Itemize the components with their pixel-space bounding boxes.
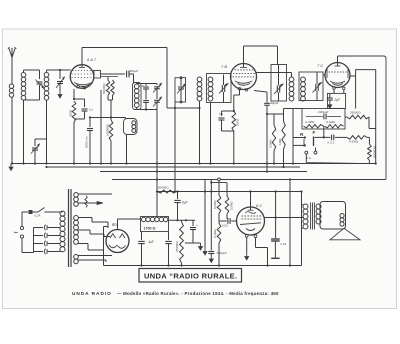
svg-text:UNDA “RADIO RURALE.: UNDA “RADIO RURALE.	[144, 272, 237, 281]
svg-text:25000Ω: 25000Ω	[350, 111, 361, 115]
svg-text:50000Ω: 50000Ω	[102, 83, 106, 94]
svg-text:350Ω: 350Ω	[69, 109, 73, 117]
svg-text:200μμF: 200μμF	[317, 110, 330, 114]
svg-text:4μF: 4μF	[148, 240, 155, 244]
svg-text:~: ~	[14, 228, 19, 237]
svg-text:0,5MΩ: 0,5MΩ	[230, 201, 234, 210]
svg-text:1MΩ: 1MΩ	[278, 138, 282, 145]
svg-text:0 0 2: 0 0 2	[328, 140, 335, 144]
svg-text:0,01: 0,01	[281, 242, 287, 246]
svg-text:0-1MΩ: 0-1MΩ	[327, 120, 337, 124]
svg-text:500μμF: 500μμF	[217, 251, 229, 255]
svg-text:P.U.: P.U.	[307, 156, 312, 160]
svg-text:UNDA RADIO: UNDA RADIO	[72, 291, 112, 296]
svg-text:7 C: 7 C	[317, 63, 323, 68]
svg-text:7 B: 7 B	[221, 64, 227, 69]
svg-text:5000 cm: 5000 cm	[85, 136, 89, 148]
svg-text:50000Ω: 50000Ω	[158, 186, 169, 190]
svg-text:1700 Ω: 1700 Ω	[144, 227, 156, 231]
svg-text:— Modello «Radio Rurale». -: — Modello «Radio Rurale». - Produzione 1…	[117, 291, 279, 296]
svg-text:0-1MΩ: 0-1MΩ	[306, 120, 316, 124]
svg-text:0,1: 0,1	[219, 112, 224, 116]
svg-text:20000Ω: 20000Ω	[175, 241, 179, 252]
svg-text:500000Ω: 500000Ω	[373, 145, 377, 158]
svg-text:50μμF: 50μμF	[130, 69, 140, 73]
svg-text:100000Ω: 100000Ω	[106, 123, 110, 136]
svg-text:6 C: 6 C	[256, 203, 262, 208]
svg-text:8μF: 8μF	[182, 201, 189, 205]
svg-text:+: +	[196, 224, 198, 228]
svg-text:0-2MΩ: 0-2MΩ	[349, 140, 359, 144]
svg-text:250Ω: 250Ω	[236, 118, 240, 126]
svg-text:0,02: 0,02	[222, 224, 228, 228]
svg-text:0,2A: 0,2A	[35, 214, 41, 218]
svg-text:0,1: 0,1	[89, 108, 94, 112]
svg-text:8o: 8o	[112, 222, 117, 227]
svg-text:2μF: 2μF	[334, 98, 342, 102]
svg-text:0,1MΩ: 0,1MΩ	[213, 229, 217, 238]
svg-text:0,5MΩ: 0,5MΩ	[269, 139, 273, 148]
svg-text:F: F	[313, 130, 316, 136]
svg-text:R: R	[300, 132, 304, 138]
svg-text:6 A 7: 6 A 7	[87, 57, 97, 62]
svg-text:0,5MΩ: 0,5MΩ	[213, 200, 217, 209]
